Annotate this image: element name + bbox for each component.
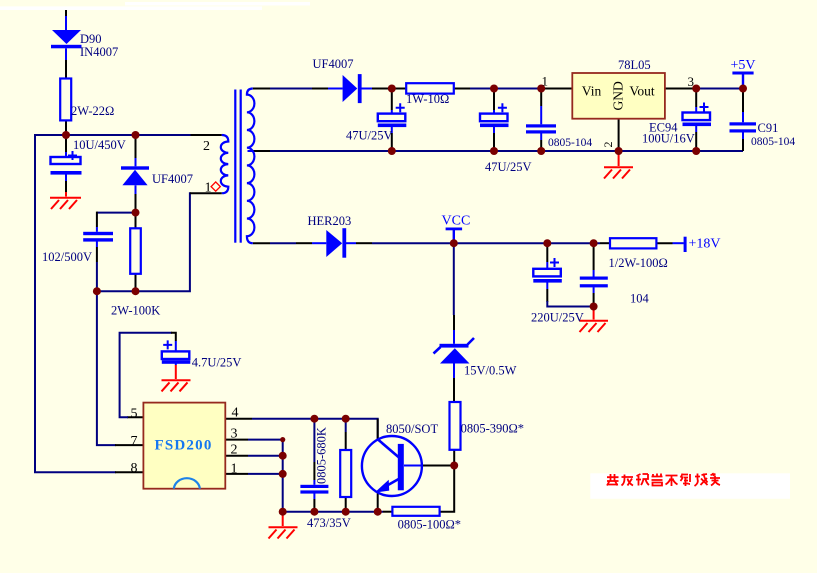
wire D90 to R 2W-22 [65,48,67,78]
svg-text:IN4007: IN4007 [80,45,118,59]
wire R 2W-22 to B+ rail [65,120,67,135]
svg-text:78L05: 78L05 [618,58,651,72]
svg-text:47U/25V: 47U/25V [346,129,393,143]
svg-text:C91: C91 [758,121,779,135]
svg-text:8050/SOT: 8050/SOT [386,422,438,436]
svg-text:D90: D90 [80,32,102,46]
capacitor 47U/25V no1 [378,103,407,127]
svg-text:+5V: +5V [731,58,756,73]
svg-text:Vin: Vin [582,84,602,99]
wire primary return rail y291 [97,192,222,291]
svg-text:1: 1 [231,462,238,477]
zener 15V/0.5W [434,338,475,364]
transistor Q 8050 [362,436,422,496]
wire cap C91 leads [742,89,744,152]
svg-text:GND: GND [611,81,626,110]
wire R 680K drop [345,419,347,512]
wire pin4 rail y418.7 [225,419,379,440]
wire cap EC94 leads [695,89,697,152]
resistor 0805-100 [392,507,439,516]
svg-text:4: 4 [232,406,239,421]
ground below 4.7U [162,365,191,391]
ground below 78L05 [604,151,633,179]
wire x96.9 drop to pin7 [97,291,143,445]
wire pin5 loop to cap 4.7U [120,333,176,418]
resistor 0805-390 [450,402,461,450]
wire 78L05 Vout to +5V [665,88,743,90]
svg-text:FSD200: FSD200 [155,438,213,454]
capacitor 47U/25V no2 [480,103,509,127]
svg-text:0805-100Ω*: 0805-100Ω* [398,518,461,532]
svg-text:8: 8 [131,461,138,476]
ground bottom bus [269,512,298,539]
svg-text:3: 3 [231,427,238,442]
regulator U 78L05 [572,73,665,119]
transformer primary winding [221,135,229,193]
power port +18V [684,237,687,252]
diode D90 IN4007 [51,30,82,48]
capacitor EC94 100U/16V [683,103,712,127]
svg-text:7: 7 [131,434,138,449]
wire left drop x35 to pin8 [35,134,143,472]
pin 1 marker diamond [211,182,220,191]
wire HER203 to VCC rail [346,242,610,244]
resistor 0805-680K [340,450,351,497]
wire cap 0805-104 no1 leads [540,89,542,152]
svg-text:UF4007: UF4007 [152,172,193,186]
wire AC input to D90 top [65,10,67,30]
svg-text:HER203: HER203 [308,214,352,228]
red watermark text [607,473,720,486]
wire R 1/2W-100 to +18V [656,242,683,244]
svg-text:2: 2 [231,443,238,458]
capacitor 220U/25V [533,258,562,283]
white band behind watermark [590,473,790,499]
svg-text:2W-100K: 2W-100K [111,304,160,318]
svg-text:1/2W-100Ω: 1/2W-100Ω [609,256,668,270]
wire R 0805-390 to base node [453,450,455,466]
wire secondary bottom tap to HER203 [253,242,326,244]
svg-text:1W-10Ω: 1W-10Ω [406,92,449,106]
power port +5V [732,72,753,89]
power port VCC [446,228,463,244]
svg-text:0805-104: 0805-104 [751,136,795,148]
wire pin2 [225,455,283,457]
svg-text:473/35V: 473/35V [307,516,351,530]
diode HER203 [326,228,346,258]
capacitor 102/500V [83,232,113,242]
svg-text:102/500V: 102/500V [42,250,92,264]
svg-text:0805-680K: 0805-680K [315,427,329,484]
svg-text:+18V: +18V [689,237,721,252]
wire cap 47U no1 leads [391,89,393,152]
wire base link [404,465,454,467]
wire cap 473 drop [313,419,315,512]
wire zener to R 0805-390 [453,364,455,403]
wire cap 47U no2 leads [493,89,495,152]
svg-text:4.7U/25V: 4.7U/25V [192,356,242,370]
wire 78L05 GND pin [618,119,620,151]
wire snubber top link [97,212,136,232]
svg-text:UF4007: UF4007 [313,57,354,71]
svg-text:10U/450V: 10U/450V [73,138,126,152]
ground below 10U [50,192,81,209]
svg-text:3: 3 [688,74,695,89]
wire cap 104 leads [593,243,595,306]
wire cap 102 bottom lead [96,241,98,291]
transformer core [234,90,242,243]
wire secondary top tap to UF4007 [253,88,343,90]
svg-text:220U/25V: 220U/25V [531,311,584,325]
svg-text:2W-22Ω: 2W-22Ω [71,104,114,118]
wire UF4007 clamp leads x135.5 [135,136,137,213]
resistor 1/2W-100 [610,238,656,248]
svg-text:47U/25V: 47U/25V [485,160,532,174]
wire pin1 [225,473,283,475]
wire ground bus y511.7 [283,465,455,512]
svg-text:2: 2 [203,139,210,154]
svg-text:100U/16V: 100U/16V [642,132,695,146]
svg-text:Vout: Vout [629,84,655,99]
capacitor 104 [580,277,608,288]
svg-text:0805-390Ω*: 0805-390Ω* [461,422,524,436]
capacitor 10U/450V [51,151,82,175]
diode UF4007 secondary [343,74,362,103]
wire B+ rail y135 [35,134,222,136]
wire pin3 to gnd bus [225,440,283,512]
svg-text:0805-104: 0805-104 [548,137,592,149]
svg-text:1: 1 [542,74,549,89]
svg-text:1: 1 [205,181,212,196]
IC FSD200 [143,403,225,489]
capacitor 473/35V [300,485,328,494]
svg-text:VCC: VCC [442,213,471,228]
wire R 1W-10 to 78L05 Vin [454,88,573,90]
transformer secondary winding [247,89,255,244]
wire cap 220U leads [547,243,593,306]
diode UF4007 clamp [121,166,149,185]
wire VCC down to zener [453,243,455,344]
wire UF4007 to R 1W-10 junction [362,88,407,90]
wire collector drop [377,419,379,440]
resistor 2W-100K [130,228,141,273]
resistor 1W-10 [406,83,454,93]
wire 0V mid rail y151 [253,150,743,152]
ground below 104 [580,307,609,333]
resistor 2W-22 [60,79,71,121]
svg-text:5: 5 [131,407,138,422]
capacitor 4.7U/25V [162,340,191,363]
wire emitter drop [377,492,379,512]
svg-text:104: 104 [630,292,650,306]
wire cap 10U leads [65,135,67,192]
svg-text:2: 2 [601,142,615,148]
wire R 2W-100K leads [135,213,137,292]
capacitor C91 0805-104 [730,122,757,132]
svg-text:15V/0.5W: 15V/0.5W [464,364,517,378]
capacitor 0805-104 no1 [526,124,556,133]
